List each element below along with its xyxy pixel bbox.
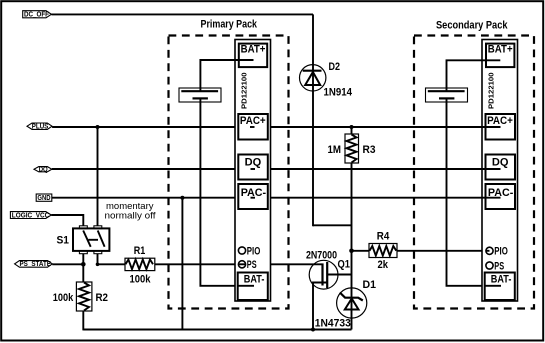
resistor R2 (76, 282, 92, 311)
U2 pin box BAT+ (482, 44, 514, 68)
wire S1 to R1 (98, 254, 126, 264)
svg-text:PIO: PIO (247, 245, 261, 257)
svg-text:1N914: 1N914 (324, 87, 353, 99)
wire GND bus left (52, 197, 239, 199)
svg-text:normally off: normally off (105, 210, 156, 221)
U1 pin box BAT+ (239, 44, 267, 68)
U2 pin circle PS (486, 260, 504, 272)
svg-text:1N4733: 1N4733 (315, 318, 351, 330)
transistor Q1 (309, 260, 351, 329)
net tag PS_STATE (15, 261, 53, 269)
svg-text:R4: R4 (377, 231, 390, 243)
secondary pack dashed box (414, 36, 534, 309)
junction dot S1 right (96, 263, 100, 267)
wire D2 anode elbow (313, 224, 352, 226)
U1 pin box PAC+ (238, 114, 267, 140)
svg-text:DC_OFF: DC_OFF (24, 11, 50, 18)
zener diode D1 (337, 288, 367, 318)
svg-text:BAT+: BAT+ (488, 44, 513, 56)
U2 pin circle PIO (486, 246, 508, 258)
wire PLUS bus left (52, 126, 238, 128)
svg-text:Q1: Q1 (338, 259, 351, 271)
svg-text:Secondary Pack: Secondary Pack (436, 20, 508, 32)
U1 pin circle PS (238, 259, 256, 271)
wire R4 to secondary PIO (397, 250, 486, 252)
wire D1 to bottom rail (351, 318, 353, 330)
wire D2 cathode drop (312, 14, 314, 226)
battery B2 (426, 88, 468, 102)
svg-text:2N7000: 2N7000 (306, 249, 337, 261)
wire R3 bottom to D1 (351, 163, 353, 319)
primary pack dashed box (169, 36, 289, 309)
svg-text:DQ: DQ (492, 157, 509, 169)
svg-text:R3: R3 (363, 144, 376, 156)
svg-text:PS: PS (494, 260, 504, 272)
net tag GND (36, 194, 52, 202)
svg-text:100k: 100k (53, 292, 74, 304)
svg-text:D1: D1 (363, 279, 377, 291)
wire PLUS bus right (271, 126, 501, 128)
svg-text:DQ: DQ (245, 157, 262, 169)
wire R2 to bottom rail (82, 311, 84, 331)
U1 pin box DQ (238, 155, 267, 180)
svg-text:100k: 100k (130, 273, 152, 285)
svg-text:BAT-: BAT- (244, 274, 265, 286)
svg-text:PLUS: PLUS (32, 124, 49, 131)
net tag PLUS (27, 123, 52, 131)
wire GND bus right (271, 197, 501, 199)
net tag DQ (34, 166, 52, 173)
junction dot PLUS/S1 (96, 125, 100, 129)
U2 pin box PAC+ (482, 114, 515, 140)
battery B1 (179, 88, 221, 102)
diode D2 (300, 65, 326, 91)
wire DQ bus right (271, 168, 501, 170)
wire bottom rail (83, 329, 351, 331)
wire LOGIC_VCC to S1 (51, 215, 83, 226)
net tag DC_OFF (23, 11, 52, 19)
U1 pin box PAC- (238, 184, 267, 209)
battery B2 positive wire (447, 60, 501, 88)
svg-text:LOGIC_VCC: LOGIC_VCC (12, 212, 50, 219)
U2 pin box DQ (482, 155, 515, 180)
wire DQ bus left (52, 168, 239, 170)
junction dot GND drop (180, 196, 184, 200)
svg-text:PD122100: PD122100 (487, 73, 496, 110)
svg-text:PIO: PIO (494, 246, 508, 258)
resistor R1 (125, 258, 155, 270)
resistor R3 (345, 134, 359, 163)
IC U1 PD122100 primary (235, 40, 271, 302)
svg-text:S1: S1 (57, 235, 70, 247)
battery B1 negative wire (200, 102, 254, 286)
svg-text:2k: 2k (378, 259, 389, 271)
svg-text:BAT+: BAT+ (241, 44, 266, 56)
battery B1 positive wire (200, 60, 253, 88)
svg-text:1M: 1M (328, 144, 342, 156)
switch S1 (73, 226, 109, 254)
wire R1 to Q1 gate (155, 263, 322, 265)
wire PLUS to S1 (97, 127, 99, 226)
wire DC_OFF to D2 (51, 13, 313, 15)
net tag LOGIC_VCC (10, 212, 51, 220)
junction dot R4 (349, 249, 354, 254)
U1 pin circle PIO (238, 245, 260, 257)
wire GND drop to bottom rail (181, 198, 183, 330)
resistor R4 (369, 244, 397, 258)
wire R4 left (352, 250, 370, 252)
svg-text:Primary Pack: Primary Pack (201, 19, 258, 31)
svg-text:R2: R2 (96, 292, 109, 304)
U2 pin box PAC- (482, 184, 515, 209)
svg-text:PAC+: PAC+ (487, 115, 513, 127)
svg-text:PD122100: PD122100 (239, 73, 248, 109)
battery B2 negative wire (447, 102, 501, 286)
junction dot R3/PLUS (350, 125, 354, 129)
junction dot PS_STATE/S1/R2 (81, 262, 86, 267)
svg-text:BAT-: BAT- (491, 274, 512, 286)
svg-text:PAC+: PAC+ (240, 115, 266, 127)
U2 pin box BAT- (485, 273, 515, 301)
wire PS_STATE to junction (52, 263, 85, 265)
IC U2 PD122100 secondary (482, 40, 518, 302)
resistor R3 top wire (351, 126, 353, 135)
svg-text:DQ: DQ (39, 166, 48, 173)
svg-text:D2: D2 (329, 61, 341, 73)
svg-text:R1: R1 (134, 245, 146, 257)
junction dot Q1 source / bottom rail (311, 328, 315, 332)
svg-text:GND: GND (37, 195, 50, 202)
svg-text:PS_STATE: PS_STATE (20, 261, 52, 268)
svg-text:PS: PS (247, 259, 257, 271)
wire battery+ into BAT+ (235, 59, 254, 61)
U1 pin box BAT- (238, 273, 268, 301)
wire S1 to R2 (82, 254, 84, 282)
